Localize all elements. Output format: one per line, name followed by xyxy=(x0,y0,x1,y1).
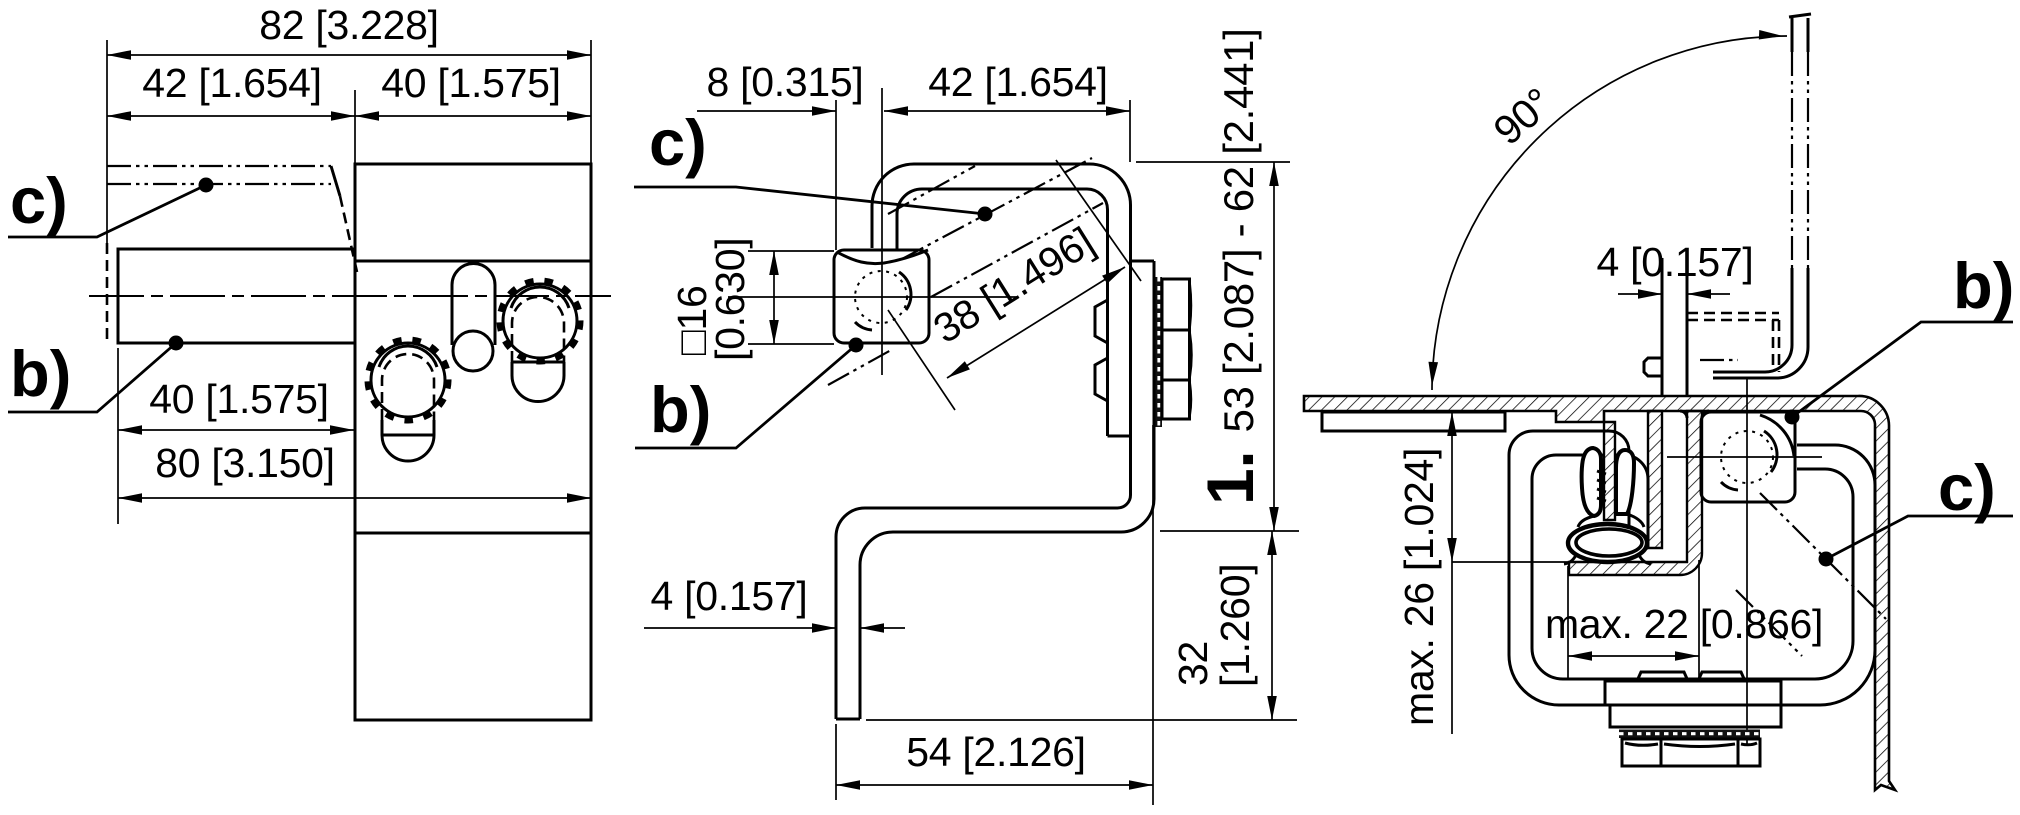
spring tab on back wall xyxy=(1644,358,1662,376)
label b) left xyxy=(8,336,184,413)
serrated nut right: slot tail xyxy=(512,362,564,402)
max26 reference line xyxy=(1452,561,1571,563)
svg-text:[1.260]: [1.260] xyxy=(1212,564,1258,687)
phantom diagonal upper edge xyxy=(888,166,975,214)
svg-text:max. 26 [1.024]: max. 26 [1.024] xyxy=(1396,448,1442,726)
bracket hook cap xyxy=(1629,547,1648,550)
hidden dashed end of bar xyxy=(106,243,109,345)
nut vertical centerline xyxy=(1746,379,1748,745)
vertical rail lower solid with bend xyxy=(1713,268,1792,372)
dim 38 extension line top xyxy=(1056,160,1141,281)
svg-text:40 [1.575]: 40 [1.575] xyxy=(149,376,328,422)
tube cut curve xyxy=(1760,415,1794,456)
hex bolt side view xyxy=(1162,279,1191,419)
clip: bottom feet xyxy=(1564,555,1651,564)
dimension 38 [1.496] xyxy=(925,218,1127,382)
svg-text:b): b) xyxy=(10,337,71,410)
extension line right x591 xyxy=(590,40,592,164)
bracket inner contour (hook) xyxy=(897,189,1108,436)
serrated nut left: slot upper (hidden) xyxy=(382,354,434,420)
nut block right view xyxy=(1701,412,1795,502)
phantom diagonal centerline xyxy=(902,158,1092,259)
horizontal centerline of square xyxy=(728,296,1017,298)
vertical rail phantom lines xyxy=(1791,52,1793,268)
phantom diagonal main xyxy=(1760,493,1886,619)
nut arc lower-left xyxy=(1721,482,1738,490)
svg-text:c): c) xyxy=(10,164,68,237)
hook wall bottom cap xyxy=(1108,435,1131,438)
dimension 82 [3.228] xyxy=(107,2,591,60)
bracket hook wall outer xyxy=(1129,206,1132,496)
serrated nut left: slot tail xyxy=(382,435,434,461)
extension x836 below xyxy=(835,724,837,800)
bracket outer contour xyxy=(872,164,1131,248)
spring tab 1 xyxy=(1095,300,1108,343)
extension line x1130 xyxy=(1129,100,1131,162)
svg-text:42 [1.654]: 42 [1.654] xyxy=(142,60,321,106)
screw head 2 xyxy=(1698,672,1745,681)
label b) right xyxy=(1785,249,2015,425)
clip: neck left xyxy=(1578,516,1594,527)
wavy tube-cut curve on square top xyxy=(837,250,928,264)
main rectangle (vertical plate) xyxy=(355,164,591,720)
vertical rail phantom: solid top xyxy=(1789,14,1811,52)
extension line y162 right xyxy=(1136,161,1290,163)
phantom line 2 xyxy=(107,183,331,185)
label b) middle xyxy=(635,338,864,449)
serrated nut right: chord xyxy=(512,361,564,364)
serrated washer strip xyxy=(1156,277,1163,427)
serrated nut left: inner arc xyxy=(379,346,437,367)
extension line y531 right xyxy=(1160,530,1299,532)
hole circle in square (dotted) xyxy=(855,271,907,323)
solid corner diagonal xyxy=(331,166,340,196)
serrated nut left: slot sides xyxy=(382,420,434,435)
extension line mid x355 xyxy=(354,90,356,164)
svg-text:max. 22 [0.866]: max. 22 [0.866] xyxy=(1545,601,1823,647)
dimension 32 [1.260] xyxy=(1170,531,1277,720)
dimension 54 [2.126] xyxy=(836,729,1153,790)
fillet arcs at flange C top xyxy=(1680,411,1709,418)
bolt plate lower xyxy=(1610,705,1781,727)
dimension 40 [1.575] bottom xyxy=(118,376,354,435)
svg-text:c): c) xyxy=(649,106,707,179)
rail flange C with foot (hatched) xyxy=(1569,411,1702,575)
svg-text:40 [1.575]: 40 [1.575] xyxy=(381,60,560,106)
nut horizontal centerline xyxy=(1667,456,1822,458)
serrated washer bottom xyxy=(1619,730,1760,739)
bolt plate upper xyxy=(1605,681,1781,705)
nut hole dotted circle xyxy=(1721,431,1773,483)
dimension square16 vertical xyxy=(669,238,779,361)
svg-text:b): b) xyxy=(1953,249,2014,322)
serrated nut left: chord xyxy=(382,434,434,437)
dimension 1. 53-62 vertical xyxy=(1193,28,1279,531)
inner edge line top xyxy=(355,260,591,263)
extension line left x107 xyxy=(106,40,108,252)
spring tab 2 xyxy=(1095,358,1108,401)
svg-text:[0.630]: [0.630] xyxy=(707,238,753,361)
90 degree swing arc xyxy=(1427,30,1787,390)
clip: left prong xyxy=(1582,448,1601,516)
label c) left xyxy=(8,164,214,237)
phantom dots xyxy=(1700,359,1738,361)
phantom diagonal lower edge xyxy=(931,203,1103,297)
serrated nut right: teeth ring xyxy=(500,281,581,362)
serrated nut right: body circle xyxy=(503,284,577,358)
clip: foot oval outer xyxy=(1568,524,1647,562)
svg-text:8 [0.315]: 8 [0.315] xyxy=(707,59,864,105)
phantom line top (alternate position c) xyxy=(107,165,331,167)
dimension 40 [1.575] top xyxy=(355,60,591,121)
serrated nut right: slot upper (hidden) xyxy=(512,297,564,362)
clip: neck right xyxy=(1627,514,1644,527)
phantom stub lower-left xyxy=(828,349,893,385)
dimension max. 26 [1.024] xyxy=(1396,412,1457,734)
dimension 42 [1.654] middle xyxy=(884,59,1130,116)
dim 38 extension line bottom xyxy=(888,310,955,410)
leg bottom cap xyxy=(836,718,860,721)
screw head 1 xyxy=(1637,672,1688,681)
Z-piece inner (step+leg) xyxy=(836,436,1131,719)
sq16 extension lines xyxy=(748,250,834,252)
rail flange B (hatched) xyxy=(1648,411,1662,548)
serrated nut left: teeth ring xyxy=(368,340,449,421)
svg-text:80 [3.150]: 80 [3.150] xyxy=(155,440,334,486)
dimension 4 [0.157] right xyxy=(1597,239,1754,299)
max22 extension lines xyxy=(1567,566,1569,678)
hidden rail flange lines xyxy=(1687,312,1779,315)
dimension 42 [1.654] xyxy=(107,60,355,121)
small arc inside square xyxy=(855,322,872,330)
nut arc right xyxy=(1764,431,1777,472)
svg-text:82 [3.228]: 82 [3.228] xyxy=(259,2,438,48)
dimension 80 [3.150] xyxy=(118,440,591,503)
Z-piece outer (right+step+leg) xyxy=(860,261,1154,719)
extension x1153 right xyxy=(1152,425,1154,805)
dimension max. 22 [0.866] xyxy=(1545,601,1823,661)
bracket outer contour xyxy=(1509,431,1875,705)
clamped rail section (hatched) xyxy=(1304,396,1895,790)
clip: foot oval inner xyxy=(1576,529,1642,556)
bar (profile) outline xyxy=(118,249,355,343)
serrated nut right: inner arc xyxy=(511,287,569,308)
hex nut bottom xyxy=(1622,739,1760,766)
extension line x118 bottom xyxy=(117,348,119,524)
svg-text:54 [2.126]: 54 [2.126] xyxy=(906,729,1085,775)
label c) middle xyxy=(634,106,993,222)
serrated nut left: body circle xyxy=(371,343,445,417)
svg-text:4 [0.157]: 4 [0.157] xyxy=(1597,239,1754,285)
extension line y720 right xyxy=(866,719,1297,721)
back wall above plate xyxy=(1661,258,1664,396)
square nut adapter xyxy=(834,250,929,343)
label c) right xyxy=(1819,451,2014,567)
Z-piece top cap xyxy=(1131,260,1155,263)
dimension 4 [0.157] middle xyxy=(644,573,905,633)
svg-text:4 [0.157]: 4 [0.157] xyxy=(651,573,808,619)
svg-text:c): c) xyxy=(1938,451,1996,524)
keyhole slot xyxy=(452,264,495,346)
clip: right prong xyxy=(1616,450,1634,514)
dashed diagonal to rect xyxy=(340,196,357,272)
centerline xyxy=(89,295,611,297)
svg-text:32: 32 xyxy=(1170,641,1216,686)
second thin plate xyxy=(1322,412,1505,431)
svg-text:42 [1.654]: 42 [1.654] xyxy=(928,59,1107,105)
rail flange A (hatched, in clip) xyxy=(1604,422,1615,520)
svg-text:b): b) xyxy=(650,373,711,446)
keyhole hole xyxy=(453,331,493,371)
arc inside square xyxy=(899,272,911,310)
extension line x836 xyxy=(835,100,837,250)
vertical centerline of square xyxy=(881,88,883,375)
clip: prong serration rungs xyxy=(1597,471,1606,501)
bracket inner contour xyxy=(1532,455,1853,679)
phantom diagonal second xyxy=(1736,590,1802,656)
dimension 8 [0.315] xyxy=(697,59,863,116)
inner edge line bottom xyxy=(355,532,591,535)
